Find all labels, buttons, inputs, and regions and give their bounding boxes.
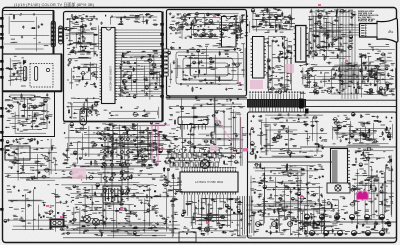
svg-text:(1)/19 (P1/4E) COLOR TV 日面部 (8: (1)/19 (P1/4E) COLOR TV 日面部 (8P/9 3B) — [14, 2, 95, 7]
